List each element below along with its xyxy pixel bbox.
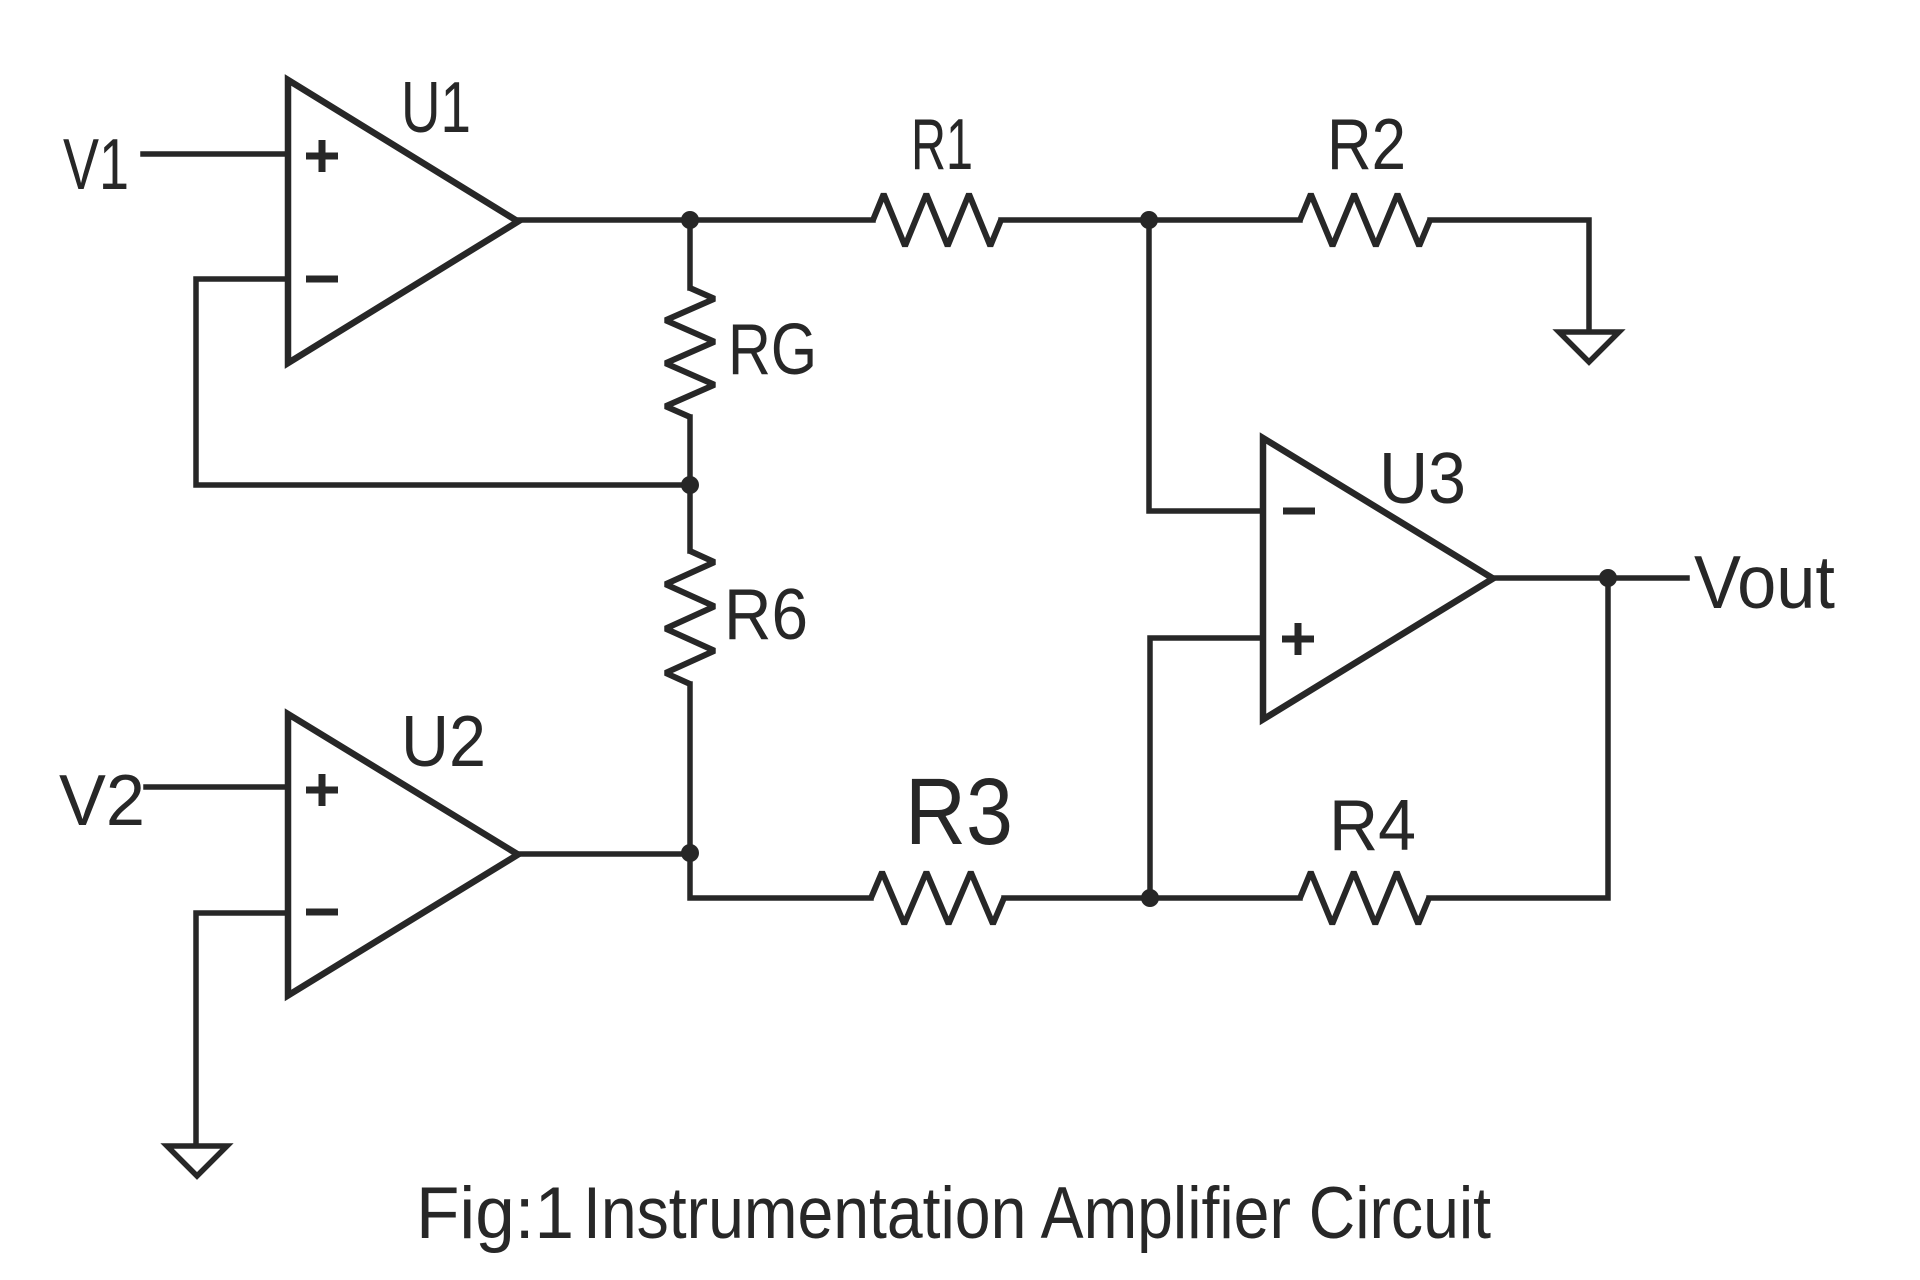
wire V2 lead xyxy=(146,784,288,790)
U3 plus sign xyxy=(1282,623,1314,655)
wire R3 to node5 xyxy=(1004,895,1150,901)
wire RG bottom lead xyxy=(687,417,693,485)
node C : U2 out / R6 junction xyxy=(681,844,699,862)
svg-text:U3: U3 xyxy=(1379,439,1466,519)
resistor R1 xyxy=(873,194,1001,246)
svg-text:R4: R4 xyxy=(1329,786,1416,866)
wire U1 output xyxy=(518,217,690,223)
wire R6 bottom lead xyxy=(687,684,693,853)
svg-text:V1: V1 xyxy=(63,125,129,205)
wire U1 feedback xyxy=(196,279,690,485)
U3 minus sign xyxy=(1283,508,1315,515)
wire R1 to node4 xyxy=(1001,217,1149,223)
wire node4 to R2 xyxy=(1149,217,1300,223)
ground (R2) xyxy=(1559,332,1619,362)
svg-text:V2: V2 xyxy=(59,761,145,841)
wire node4 down to U3 minus xyxy=(1149,220,1263,511)
node B : RG / R6 / U1 feedback junction xyxy=(681,476,699,494)
U2 minus sign xyxy=(306,909,338,916)
resistor R3 xyxy=(871,872,1004,924)
wire R2 to ground corner xyxy=(1430,220,1589,332)
svg-text:U1: U1 xyxy=(401,68,471,148)
svg-text:Fig:1: Fig:1 xyxy=(416,1173,574,1254)
op-amp U3 xyxy=(1263,438,1493,720)
wire U2 output xyxy=(518,851,690,857)
node D : R1 / R2 / U3 minus junction xyxy=(1140,211,1158,229)
svg-text:Vout: Vout xyxy=(1694,540,1835,624)
node A : U1 out / R1 / RG junction xyxy=(681,211,699,229)
resistor R6 xyxy=(666,551,715,684)
U2 plus sign xyxy=(306,774,338,806)
node F : Vout junction xyxy=(1599,569,1617,587)
op-amp U2 xyxy=(288,714,518,996)
svg-text:RG: RG xyxy=(728,310,817,390)
wire U3 output to Vout xyxy=(1493,575,1687,581)
svg-text:R6: R6 xyxy=(724,575,808,655)
wire node5 to R4 xyxy=(1150,895,1300,901)
svg-text:Instrumentation Amplifier Circ: Instrumentation Amplifier Circuit xyxy=(583,1173,1491,1254)
ground (U2) xyxy=(167,1146,227,1176)
wire R6 top lead xyxy=(687,485,693,551)
U1 plus sign xyxy=(306,140,338,172)
wire node5 up to U3 plus xyxy=(1150,638,1263,898)
resistor RG xyxy=(666,288,715,417)
node E : R3 / R4 / U3 plus junction xyxy=(1141,889,1159,907)
svg-text:U2: U2 xyxy=(401,702,486,782)
wire V1 lead xyxy=(143,151,288,157)
svg-text:R1: R1 xyxy=(911,105,973,185)
svg-text:R3: R3 xyxy=(905,759,1013,865)
resistor R4 xyxy=(1300,872,1429,924)
resistor R2 xyxy=(1300,194,1430,246)
wire node3 down to R3 xyxy=(690,853,871,898)
svg-text:R2: R2 xyxy=(1327,105,1406,185)
wire R4 up to Vout node xyxy=(1429,578,1608,898)
op-amp U1 xyxy=(288,80,518,363)
U1 minus sign xyxy=(306,276,338,283)
wire U2 feedback to ground xyxy=(196,913,288,1146)
wire RG top lead xyxy=(687,220,693,288)
wire node1 to R1 xyxy=(690,217,873,223)
